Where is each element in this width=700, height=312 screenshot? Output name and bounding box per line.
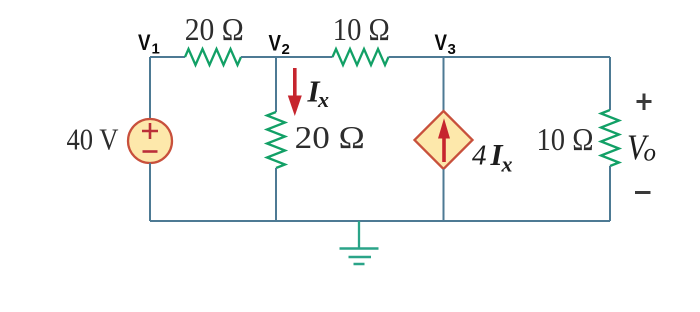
svg-text:4: 4 (472, 140, 487, 172)
wire top-right segment to right rail (389, 56, 611, 58)
wire V3 rail bottom (443, 169, 445, 221)
svg-text:V: V (435, 30, 448, 55)
svg-text:1: 1 (152, 41, 160, 58)
svg-text:o: o (644, 140, 657, 167)
resistor R1 20ohm horizontal (185, 49, 241, 65)
svg-text:3: 3 (448, 41, 456, 58)
ground bar 2 (349, 256, 372, 259)
svg-text:2: 2 (282, 41, 290, 58)
resistor R3 20ohm vertical (267, 112, 285, 168)
wire top-left segment V1 to R 20ohm (150, 56, 185, 58)
current arrow Ix (293, 68, 297, 98)
svg-text:10 Ω: 10 Ω (537, 121, 594, 157)
svg-text:20 Ω: 20 Ω (295, 119, 365, 155)
ground bar 3 (354, 263, 365, 266)
svg-text:10 Ω: 10 Ω (333, 11, 390, 47)
wire top middle V2 segment (241, 56, 333, 58)
arrow inside dependent source (442, 136, 446, 162)
wire V2 rail bottom (275, 168, 277, 221)
wire left rail bottom (149, 163, 151, 221)
plus sign inside source (142, 123, 158, 139)
ground bar 1 (340, 247, 379, 250)
plus sign for Vo (637, 94, 652, 111)
svg-text:20 Ω: 20 Ω (185, 11, 244, 47)
svg-text:V: V (138, 30, 151, 55)
ground stem (358, 221, 360, 248)
resistor R4 10ohm vertical (601, 110, 619, 166)
wire right rail top (609, 57, 611, 110)
svg-text:V: V (269, 31, 282, 56)
resistor R2 10ohm horizontal (333, 49, 389, 65)
svg-text:40 V: 40 V (67, 122, 120, 157)
minus sign inside source (143, 150, 158, 153)
wire V2 rail top (275, 57, 277, 112)
voltage source VS 40V circle (128, 119, 172, 163)
dependent current source D1 diamond (415, 111, 473, 169)
svg-text:x: x (501, 152, 513, 177)
wire bottom rail (150, 220, 610, 222)
minus sign for Vo (635, 191, 651, 194)
wire V3 rail top (443, 57, 445, 111)
wire left rail top (149, 57, 151, 119)
svg-text:x: x (317, 87, 329, 112)
wire right rail bottom (609, 166, 611, 221)
